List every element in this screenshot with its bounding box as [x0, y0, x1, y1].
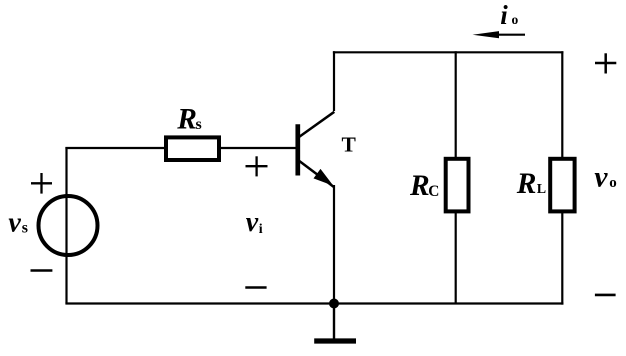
transistor T collector lead: [299, 112, 334, 137]
svg-text:s: s: [196, 116, 202, 133]
resistor RL body: [550, 159, 574, 212]
minus sign of vs: [31, 269, 53, 272]
svg-text:s: s: [22, 220, 28, 237]
svg-text:R: R: [176, 104, 197, 136]
svg-text:R: R: [409, 170, 430, 202]
svg-text:o: o: [512, 12, 519, 27]
resistor Rs body: [166, 137, 219, 160]
wire bottom rail: [65, 302, 563, 304]
transistor T emitter arrowhead: [314, 170, 332, 185]
plus sign of vs: [31, 173, 52, 194]
plus sign of vo: [595, 53, 616, 73]
ground: [314, 304, 356, 342]
svg-text:i: i: [500, 0, 508, 30]
svg-text:i: i: [259, 222, 263, 237]
svg-text:o: o: [609, 175, 617, 191]
transistor T emitter lead: [299, 161, 334, 188]
minus sign of vo: [595, 294, 616, 297]
wire top-left horizontal: [65, 147, 166, 149]
voltage source vs circle: [39, 196, 98, 255]
svg-text:v: v: [246, 207, 259, 238]
junction dot at emitter/ground node: [329, 299, 339, 309]
wire top rail: [333, 51, 564, 53]
resistor RC body: [446, 159, 469, 212]
wire collector riser: [333, 51, 335, 111]
output current io arrow: [473, 31, 526, 38]
wire Rs to base: [219, 147, 296, 149]
wire RC bottom: [455, 212, 457, 304]
wire left rail: [65, 147, 67, 304]
wire emitter drop: [333, 185, 335, 304]
svg-text:v: v: [8, 208, 21, 239]
svg-text:C: C: [428, 183, 439, 200]
wire RL top (right rail): [561, 51, 563, 158]
plus sign of vi: [246, 156, 268, 176]
wire RL bottom: [561, 212, 563, 305]
svg-text:T: T: [342, 132, 357, 156]
minus sign of vi: [245, 286, 266, 289]
svg-text:v: v: [594, 162, 608, 194]
wire RC top: [455, 51, 457, 158]
svg-text:R: R: [516, 168, 537, 200]
svg-text:L: L: [537, 182, 546, 197]
transistor T base bar: [295, 124, 300, 175]
